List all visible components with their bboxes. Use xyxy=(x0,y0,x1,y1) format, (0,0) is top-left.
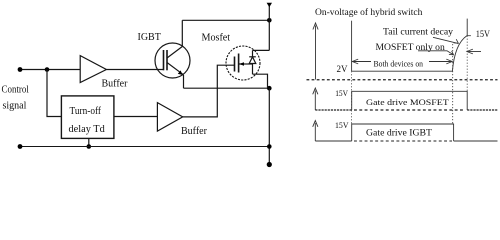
svg-text:Buffer: Buffer xyxy=(102,79,129,90)
wire: buffer2 output to MOSFET gate xyxy=(183,65,235,117)
label: Turn-off delay Td xyxy=(69,106,105,135)
axis: row3 y-axis with arrow xyxy=(314,123,316,141)
svg-text:Buffer: Buffer xyxy=(181,126,208,137)
wire: supply rail lower segment xyxy=(268,88,270,164)
wire: MOSFET source lead right then down xyxy=(253,74,268,88)
MOSFET body circle (dashed) xyxy=(226,46,260,80)
wire: top rail to supply rail xyxy=(182,19,269,21)
IGBT gate bar 1 xyxy=(163,50,165,70)
node: control input terminal (bottom) xyxy=(18,144,23,149)
svg-text:On-voltage of hybrid switch: On-voltage of hybrid switch xyxy=(315,7,423,18)
IGBT emitter diagonal xyxy=(167,63,184,75)
waveform: turn-on falling edge xyxy=(351,21,353,71)
pointer from MOSFET only on to t1 xyxy=(418,51,453,55)
node: junction of stub with bottom rail xyxy=(87,144,92,149)
MOSFET gate bar xyxy=(234,57,236,72)
svg-text:Control: Control xyxy=(2,85,30,96)
wire: diode cathode up to drain corner xyxy=(252,50,254,56)
node: junction emitter rail / right rail xyxy=(267,86,272,91)
row3 baseline left (solid) xyxy=(315,140,351,142)
wire: junction A down to delay input xyxy=(47,70,61,117)
pointer from decay label to curve xyxy=(433,37,458,43)
dimension arrow right (both devices on) xyxy=(429,61,452,63)
wire: IGBT emitter down xyxy=(183,75,185,88)
IGBT body circle xyxy=(155,43,190,78)
row2 baseline right (dotted) xyxy=(467,109,497,111)
node: junction top rail / supply rail xyxy=(267,18,272,23)
svg-text:Mosfet: Mosfet xyxy=(202,33,231,44)
waveform: 2V on-state level xyxy=(352,70,453,72)
svg-text:Tail current decay: Tail current decay xyxy=(383,27,454,37)
dimension arrow left (both devices on) xyxy=(352,61,371,63)
label: Control signal xyxy=(2,85,30,112)
MOSFET source arrow (points to channel) xyxy=(239,63,248,65)
axis: row1 y-axis with arrow xyxy=(315,26,317,80)
delay block TD: Turn-off delay box xyxy=(61,96,114,138)
timing line t2 (dotted vertical at MOSFET off) xyxy=(466,36,468,92)
wire: bottom control rail xyxy=(20,146,269,148)
row2 zero line under pulse (dashed) xyxy=(354,109,465,111)
svg-text:15V: 15V xyxy=(335,121,349,130)
arrow pointing left at t2 xyxy=(467,51,481,53)
node A: junction on top control line xyxy=(45,67,50,72)
svg-text:15V: 15V xyxy=(335,89,348,98)
svg-text:Gate drive IGBT: Gate drive IGBT xyxy=(366,127,433,137)
tick at 15V level on curve top xyxy=(467,35,471,37)
power terminal: top of supply rail xyxy=(267,3,272,7)
diode D1: body diode xyxy=(249,57,256,64)
MOSFET channel bar xyxy=(238,54,240,73)
svg-text:signal: signal xyxy=(3,101,27,112)
IGBT gate bar 2 xyxy=(166,50,168,70)
wire: MOSFET drain to supply rail xyxy=(253,49,270,51)
node: control input terminal (top) xyxy=(18,67,23,72)
svg-text:Gate drive MOSFET: Gate drive MOSFET xyxy=(366,97,450,107)
waveform: tail current decay curve xyxy=(452,36,467,72)
buffer U2 (bottom buffer triangle) xyxy=(157,103,182,132)
buffer U1 (top buffer triangle) xyxy=(80,56,106,83)
row3 baseline right (solid) xyxy=(454,140,498,142)
node: bottom terminal of right rail xyxy=(267,162,272,167)
wire: delay output to buffer2 xyxy=(114,116,157,118)
IGBT emitter arrowhead xyxy=(178,70,183,75)
transistor Q2: MOSFET with body diode xyxy=(226,46,260,80)
wire: control signal top line xyxy=(20,69,80,71)
wire: buffer1 output to IGBT gate xyxy=(106,69,163,71)
wire: diode anode down to source lead xyxy=(252,64,254,74)
waveform: final rise at MOSFET turn-off xyxy=(466,19,468,36)
wire: emitter rail to right vertical rail xyxy=(184,87,270,89)
waveform: MOSFET gate pulse xyxy=(352,91,468,110)
timing line t1 (dotted vertical at IGBT off) xyxy=(452,44,454,125)
row2 baseline left (dotted) xyxy=(315,109,351,111)
wire: supply rail upper segment xyxy=(268,4,270,50)
row3 zero line under pulse (dashed) xyxy=(354,140,452,142)
node: junction bottom rail / right rail xyxy=(267,144,272,149)
svg-text:delay Td: delay Td xyxy=(69,124,105,135)
svg-text:Turn-off: Turn-off xyxy=(70,106,102,117)
wire: IGBT collector up to top rail xyxy=(181,20,183,46)
wire: arrow to diode anode xyxy=(248,63,253,65)
row1 zero baseline (dashed) xyxy=(307,79,498,81)
IGBT collector diagonal xyxy=(167,47,182,59)
svg-text:Both devices on: Both devices on xyxy=(374,59,424,68)
transistor Q1: IGBT xyxy=(155,43,190,78)
svg-text:2V: 2V xyxy=(337,64,349,74)
axis: row2 y-axis with arrow xyxy=(314,91,316,111)
waveform: IGBT gate pulse xyxy=(352,124,454,141)
svg-text:15V: 15V xyxy=(476,30,491,40)
timing line t0 (dotted vertical at turn-on) xyxy=(351,71,353,125)
wire: delay box bottom stub to bottom rail xyxy=(88,138,90,146)
svg-text:IGBT: IGBT xyxy=(138,32,161,43)
